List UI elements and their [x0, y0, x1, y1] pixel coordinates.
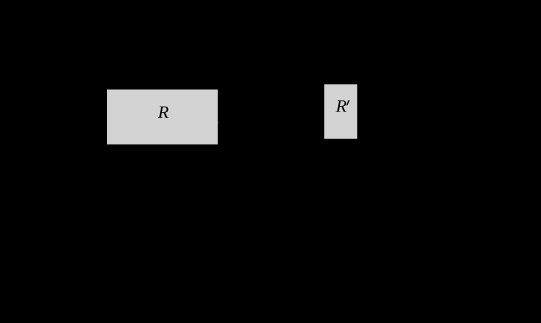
junction (wire meets R right pin) [216, 122, 219, 124]
wire [40, 121, 106, 123]
resistor R [107, 90, 218, 145]
resistor R' [324, 84, 357, 139]
wire [340, 40, 342, 84]
wire [219, 121, 290, 123]
ground [332, 180, 349, 188]
node A [39, 121, 42, 124]
wire [340, 140, 342, 181]
